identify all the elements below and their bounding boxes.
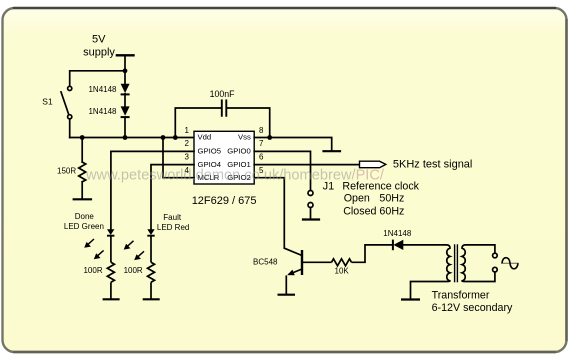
svg-text:Done: Done bbox=[75, 212, 95, 221]
LED Fault light arrows bbox=[124, 241, 144, 260]
Vdd rail wire bbox=[70, 137, 194, 139]
ground bar Done bbox=[103, 298, 120, 300]
jumper J1 top contact bbox=[308, 191, 313, 196]
junction node cap right/Vss bbox=[267, 135, 272, 140]
wire GPIO1 to test signal arrow bbox=[254, 164, 359, 166]
terminal top bbox=[493, 253, 498, 258]
wire cap top right bbox=[227, 108, 270, 138]
wire Fault LED to 100R bbox=[150, 236, 152, 263]
wire GPIO5 to Done LED column bbox=[111, 151, 194, 229]
svg-text:6: 6 bbox=[259, 153, 264, 162]
svg-text:1N4148: 1N4148 bbox=[88, 85, 117, 94]
LED Done (green) bbox=[107, 229, 114, 235]
junction node MCLR/rail bbox=[161, 135, 166, 140]
svg-text:supply: supply bbox=[83, 46, 115, 58]
emitter arrowhead bbox=[287, 270, 295, 276]
wire GPIO2 to transistor collector bbox=[254, 178, 284, 249]
svg-text:100nF: 100nF bbox=[210, 89, 236, 99]
svg-text:7: 7 bbox=[259, 139, 264, 148]
LED Done light arrows bbox=[84, 239, 103, 259]
wire supply bar to node bbox=[124, 55, 126, 71]
ground below 150R bbox=[74, 198, 91, 200]
jumper J1 bottom contact bbox=[308, 203, 313, 208]
secondary winding bbox=[462, 245, 465, 282]
resistor 100R (Done) bbox=[107, 262, 114, 282]
diode D3 1N4148 bbox=[393, 240, 403, 251]
core line 1 bbox=[454, 244, 456, 282]
collector lead bbox=[284, 248, 302, 255]
core line 2 bbox=[456, 244, 458, 282]
wire 10K to diode bbox=[352, 245, 393, 262]
svg-text:Fault: Fault bbox=[163, 213, 182, 222]
emitter wire to ground bbox=[285, 275, 287, 294]
wire Vss to ground bbox=[254, 138, 332, 151]
wire GPIO0 to J1 bbox=[254, 151, 310, 190]
svg-text:LED Red: LED Red bbox=[157, 223, 189, 232]
svg-text:12F629 / 675: 12F629 / 675 bbox=[192, 195, 257, 207]
transformer T1 bbox=[401, 244, 519, 299]
svg-text:Transformer: Transformer bbox=[432, 290, 490, 302]
resistor 10K zigzag bbox=[332, 259, 352, 266]
wire Done LED to 100R bbox=[110, 236, 112, 263]
cap plate right bbox=[225, 100, 227, 115]
wire primary bottom to ground bbox=[411, 282, 448, 299]
svg-text:Vss: Vss bbox=[238, 132, 251, 141]
resistor 150R zigzag bbox=[79, 162, 86, 182]
diode D2 1N4148 bbox=[121, 106, 130, 117]
svg-text:5V: 5V bbox=[92, 34, 106, 46]
wire 100R to ground (Done) bbox=[110, 282, 112, 299]
svg-text:50Hz: 50Hz bbox=[379, 193, 404, 205]
5V supply bar bbox=[117, 54, 134, 56]
svg-text:100R: 100R bbox=[124, 266, 143, 275]
svg-text:150R: 150R bbox=[57, 166, 76, 175]
svg-text:LED Green: LED Green bbox=[64, 222, 104, 231]
ground bar emitter bbox=[278, 294, 296, 296]
wire diode to transformer bbox=[403, 244, 447, 246]
svg-text:3: 3 bbox=[185, 153, 190, 162]
wire secondary top to terminal bbox=[465, 245, 495, 253]
border right edge bbox=[565, 19, 567, 341]
wire MCLR to rail bbox=[163, 138, 194, 178]
wire diode D2 to rail bbox=[124, 118, 126, 138]
wire 150R bottom bbox=[81, 182, 83, 199]
wire base to 10K bbox=[302, 261, 332, 263]
wire cap top left bbox=[175, 108, 221, 138]
junction node at supply bbox=[123, 68, 128, 73]
LED Fault (red) bbox=[147, 229, 154, 235]
capacitor C1 100nF bbox=[175, 100, 269, 137]
wire 150R top bbox=[81, 138, 83, 163]
cap plate left bbox=[221, 100, 223, 115]
emitter lead bbox=[289, 269, 303, 275]
wire GPIO4 to Fault LED column bbox=[151, 165, 194, 229]
svg-text:10K: 10K bbox=[335, 266, 350, 275]
svg-text:www.petesworld.demon.co.uk/hom: www.petesworld.demon.co.uk/homebrew/PIC/ bbox=[85, 167, 385, 184]
svg-text:1N4148: 1N4148 bbox=[88, 107, 117, 116]
svg-text:GPIO5: GPIO5 bbox=[198, 147, 222, 156]
terminal bottom bbox=[493, 267, 498, 272]
junction node 150R/rail bbox=[80, 135, 85, 140]
wire secondary bottom to terminal bbox=[465, 272, 495, 282]
border top edge darker bbox=[13, 7, 556, 9]
svg-text:Open: Open bbox=[344, 193, 370, 205]
svg-text:6-12V secondary: 6-12V secondary bbox=[432, 302, 513, 314]
svg-text:1N4148: 1N4148 bbox=[383, 229, 412, 238]
switch S1 top contact bbox=[68, 86, 72, 90]
diode D1 1N4148 bbox=[121, 84, 130, 95]
junction node cap left/rail bbox=[173, 135, 178, 140]
wire diode column top bbox=[124, 71, 126, 84]
svg-text:2: 2 bbox=[185, 139, 190, 148]
svg-text:BC548: BC548 bbox=[253, 258, 278, 267]
wire J1 to ground bbox=[310, 208, 312, 219]
5KHz test signal arrow bbox=[360, 161, 386, 168]
wire switch bottom to rail bbox=[69, 119, 71, 138]
resistor 100R (Fault) bbox=[148, 262, 155, 282]
ground bar transformer bbox=[401, 298, 420, 300]
svg-text:100R: 100R bbox=[83, 266, 102, 275]
primary winding bbox=[447, 245, 450, 282]
AC sine axis bbox=[501, 262, 519, 264]
ground bar J1 bbox=[303, 218, 319, 220]
svg-text:8: 8 bbox=[259, 126, 264, 135]
border bottom edge bbox=[13, 351, 556, 353]
AC sine symbol bbox=[502, 258, 518, 269]
svg-text:5KHz test signal: 5KHz test signal bbox=[393, 159, 472, 171]
ground bar Vss bbox=[324, 150, 341, 152]
wire 100R to ground (Fault) bbox=[150, 282, 152, 299]
svg-text:S1: S1 bbox=[42, 96, 53, 106]
switch S1 lever bbox=[61, 92, 69, 115]
ground bar Fault bbox=[143, 298, 160, 300]
svg-text:Closed 60Hz: Closed 60Hz bbox=[343, 205, 404, 217]
svg-text:Vdd: Vdd bbox=[198, 132, 212, 141]
svg-text:1: 1 bbox=[185, 126, 190, 135]
IC U1 12F629/675 body bbox=[194, 131, 254, 184]
wire node to switch top bbox=[70, 71, 125, 87]
junction node diodes/rail bbox=[123, 135, 128, 140]
transistor Q1 BC548 bbox=[278, 248, 303, 295]
svg-text:GPIO0: GPIO0 bbox=[227, 147, 251, 156]
wire between diodes bbox=[124, 94, 126, 107]
base bar bbox=[301, 250, 303, 275]
switch S1 bottom contact bbox=[68, 115, 72, 119]
